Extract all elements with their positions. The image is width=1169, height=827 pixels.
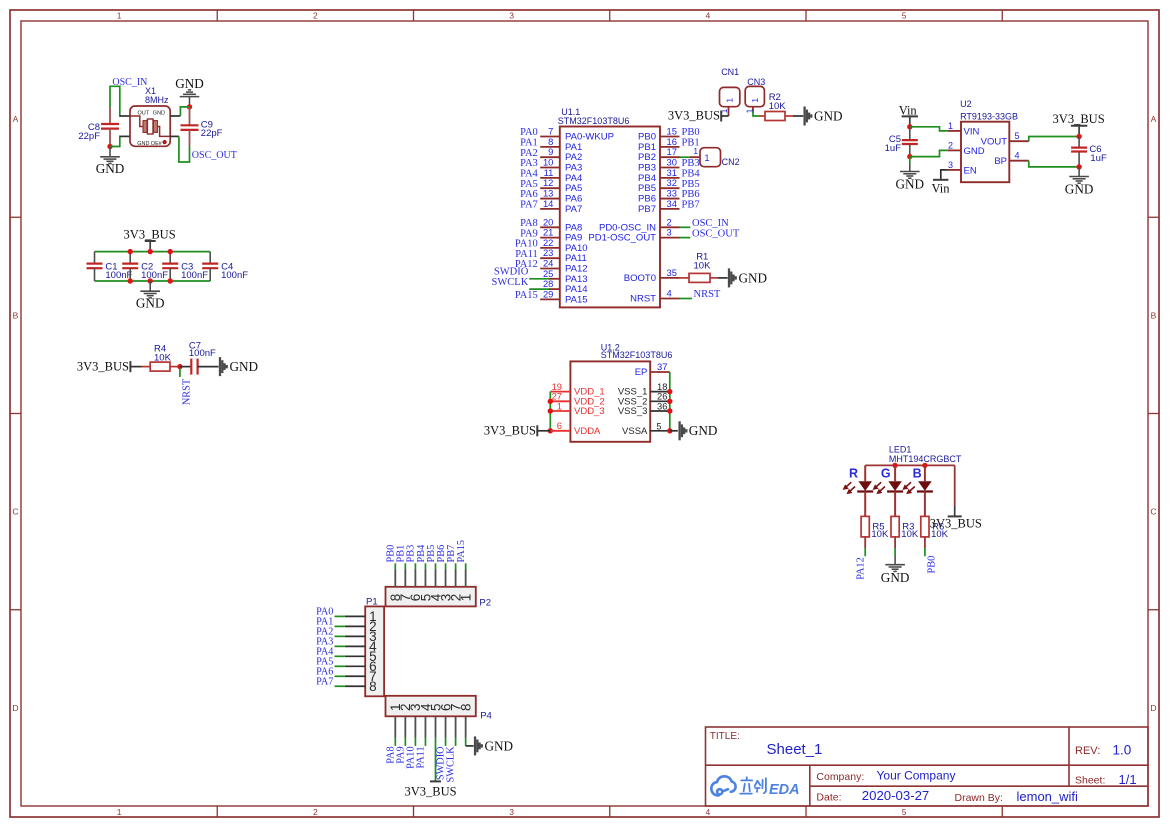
LCEDA logo cloud icon bbox=[711, 776, 735, 795]
resistor R5 bbox=[861, 516, 869, 537]
wire CN3 to R2 bbox=[753, 111, 760, 116]
wire P4 pin8 to GND bbox=[465, 738, 467, 746]
junction dot C8-GND bbox=[107, 144, 112, 149]
svg-text:1: 1 bbox=[557, 400, 562, 411]
svg-text:10K: 10K bbox=[694, 261, 712, 272]
wire to net label OSC_OUT bbox=[680, 237, 691, 239]
ground GND at R2 bbox=[805, 107, 812, 126]
svg-text:NRST: NRST bbox=[630, 294, 656, 305]
svg-text:PA6: PA6 bbox=[565, 194, 582, 205]
svg-text:100nF: 100nF bbox=[221, 270, 248, 281]
U1.2 pin 5 VSSA bbox=[650, 430, 670, 432]
LED R diode bbox=[864, 465, 866, 481]
U1.1 pin 9 (PA2) left bbox=[540, 156, 560, 158]
svg-text:P2: P2 bbox=[479, 597, 491, 608]
IC U1.1 body bbox=[560, 127, 660, 308]
U1.1 pin 34 (PB7) right bbox=[660, 208, 680, 210]
svg-text:PB6: PB6 bbox=[682, 189, 700, 200]
svg-text:OE#: OE# bbox=[151, 141, 163, 147]
svg-text:2020-03-27: 2020-03-27 bbox=[862, 788, 929, 803]
svg-text:PA2: PA2 bbox=[520, 148, 538, 159]
svg-text:3V3_BUS: 3V3_BUS bbox=[124, 228, 176, 242]
svg-text:35: 35 bbox=[667, 267, 677, 278]
U1.1 pin 31 (PB4) right bbox=[660, 177, 680, 179]
svg-text:PB6: PB6 bbox=[638, 194, 656, 205]
wire X1 GND bottom-left pin stub bbox=[120, 135, 130, 137]
capacitor C7 bbox=[190, 359, 192, 375]
svg-text:29: 29 bbox=[543, 288, 553, 299]
svg-text:Date:: Date: bbox=[816, 791, 841, 803]
svg-text:Vin: Vin bbox=[932, 181, 951, 195]
U1.2 pin 27 (VDD_2) left bbox=[550, 400, 570, 402]
wire LED anode rail bbox=[865, 464, 955, 466]
svg-text:GND: GND bbox=[175, 76, 204, 91]
svg-text:100nF: 100nF bbox=[141, 270, 168, 281]
svg-text:3: 3 bbox=[667, 227, 672, 238]
svg-text:PA15: PA15 bbox=[565, 294, 588, 305]
border column ticks top bbox=[217, 10, 1002, 21]
junction dot C6 top bbox=[1076, 134, 1081, 139]
wire X1 GND top-right pin stub bbox=[170, 115, 180, 117]
svg-text:8: 8 bbox=[369, 679, 377, 694]
U1.1 pin 24 (PA12) left bbox=[540, 268, 560, 270]
svg-text:BOOT0: BOOT0 bbox=[624, 273, 656, 284]
svg-text:OSC_OUT: OSC_OUT bbox=[692, 228, 740, 239]
svg-text:8MHz: 8MHz bbox=[145, 95, 169, 105]
U1.2 pin 1 (VDD_3) left bbox=[550, 410, 570, 412]
resistor R4 bbox=[142, 366, 151, 368]
ground GND below capacitor bank bbox=[140, 281, 160, 298]
ground GND at BOOT0 bbox=[729, 268, 736, 287]
capacitor C1 bbox=[94, 252, 96, 264]
junction dot VDD rail y=401.3 bbox=[548, 399, 553, 404]
svg-text:3: 3 bbox=[948, 160, 953, 170]
U1.1 pin 23 (PA11) left bbox=[540, 257, 560, 259]
wire 3V3 rail top bbox=[95, 251, 211, 253]
junction dot NRST bbox=[177, 364, 182, 369]
U1.1 pin 33 (PB6) right bbox=[660, 198, 680, 200]
svg-text:PA7: PA7 bbox=[520, 200, 538, 211]
svg-text:1: 1 bbox=[750, 98, 760, 103]
U1.1 pin 28 (PA14) left bbox=[529, 288, 549, 290]
U2 pin 4 BP bbox=[1009, 160, 1029, 162]
svg-text:D: D bbox=[12, 703, 18, 713]
junction dot cap bank bottom x=170.2 bbox=[168, 278, 173, 283]
LED R emission arrows bbox=[844, 482, 855, 493]
resistor R6 bbox=[921, 516, 929, 537]
svg-text:PA7: PA7 bbox=[565, 204, 582, 215]
LED G diode bbox=[894, 465, 896, 481]
connector CN2 body bbox=[700, 148, 721, 167]
svg-text:GND: GND bbox=[230, 359, 259, 374]
U1.1 pin 8 (PA1) left bbox=[540, 146, 560, 148]
junction dot rail B bbox=[922, 463, 927, 468]
svg-text:BP: BP bbox=[994, 156, 1007, 167]
wire 3V3_BUS to CN1 bbox=[721, 115, 728, 117]
wire below resistor R3 bbox=[894, 537, 896, 548]
junction dot VDD rail y=411 bbox=[548, 408, 553, 413]
svg-text:B: B bbox=[1151, 310, 1157, 320]
svg-text:33: 33 bbox=[667, 188, 677, 199]
U1.1 pin 15 (PB0) right bbox=[660, 136, 680, 138]
svg-text:GND: GND bbox=[137, 141, 149, 147]
svg-text:NRST: NRST bbox=[181, 378, 192, 405]
svg-text:10: 10 bbox=[543, 157, 553, 168]
net port Vin at EN bbox=[933, 179, 948, 181]
border column ticks bottom bbox=[217, 806, 1002, 817]
U2 pin 2 GND bbox=[948, 149, 961, 151]
U1.2 pin 36 (VSS_3) right bbox=[650, 410, 670, 412]
U2 pin 5 VOUT bbox=[1009, 140, 1029, 142]
wire X1 top-right to C9 bbox=[180, 107, 189, 116]
svg-text:PA6: PA6 bbox=[520, 189, 538, 200]
wire C8 to X1 GND pin bbox=[110, 136, 121, 146]
svg-text:34: 34 bbox=[667, 198, 677, 209]
svg-text:3: 3 bbox=[509, 10, 514, 20]
border row ticks left bbox=[10, 217, 21, 610]
svg-text:6: 6 bbox=[557, 420, 562, 431]
svg-text:GND: GND bbox=[896, 177, 925, 192]
wire VSSA to GND bbox=[670, 430, 678, 432]
svg-text:4: 4 bbox=[706, 10, 711, 20]
svg-text:1: 1 bbox=[458, 594, 473, 602]
svg-text:Your Company: Your Company bbox=[877, 768, 956, 782]
junction dot rail G bbox=[892, 463, 897, 468]
U1.2 pin 18 (VSS_1) right bbox=[650, 391, 670, 393]
wire Vin to U2 VIN bbox=[910, 127, 948, 131]
svg-text:PA1: PA1 bbox=[520, 138, 538, 149]
wire below resistor R5 bbox=[864, 537, 866, 548]
svg-text:GND: GND bbox=[96, 161, 125, 176]
LED R cathode lead bbox=[864, 492, 866, 517]
svg-text:GND: GND bbox=[739, 270, 768, 285]
svg-text:NRST: NRST bbox=[694, 289, 721, 300]
connector CN3 pin 1 bbox=[752, 107, 754, 112]
connector CN1 pin 1 bbox=[728, 107, 730, 116]
svg-text:VDD_3: VDD_3 bbox=[574, 406, 605, 417]
capacitor C2 bbox=[129, 252, 131, 264]
U1.1 pin 32 (PB5) right bbox=[660, 187, 680, 189]
svg-text:1: 1 bbox=[117, 10, 122, 20]
svg-text:100nF: 100nF bbox=[181, 270, 208, 281]
U2 pin 3 EN bbox=[948, 169, 961, 171]
wire OSC_IN hook bbox=[110, 86, 121, 116]
svg-text:RT9193-33GB: RT9193-33GB bbox=[960, 111, 1018, 121]
wire C5 to ground bbox=[909, 157, 911, 164]
resistor R3 bbox=[891, 516, 899, 537]
svg-text:3V3_BUS: 3V3_BUS bbox=[77, 360, 129, 374]
svg-text:5: 5 bbox=[1015, 131, 1020, 141]
wire C9 bottom to X1 OE# bbox=[179, 136, 190, 162]
U1.1 pin 13 (PA6) left bbox=[540, 198, 560, 200]
svg-text:C: C bbox=[12, 507, 18, 517]
connector CN2 pin 1 bbox=[690, 156, 700, 158]
svg-text:Company:: Company: bbox=[816, 771, 864, 783]
svg-text:5: 5 bbox=[902, 807, 907, 817]
svg-text:VIN: VIN bbox=[964, 126, 980, 137]
resistor R1 bbox=[680, 277, 690, 279]
svg-text:22pF: 22pF bbox=[201, 128, 223, 139]
U1.1 pin 7 (PA0-WKUP) left bbox=[540, 136, 560, 138]
svg-text:100nF: 100nF bbox=[189, 348, 216, 359]
wire to net label OSC_IN bbox=[680, 226, 691, 228]
crystal X1 body bbox=[130, 106, 170, 146]
IC U1.2 body bbox=[570, 361, 650, 441]
LED B emission arrows bbox=[904, 482, 915, 493]
svg-text:PB7: PB7 bbox=[638, 204, 656, 215]
svg-text:13: 13 bbox=[543, 188, 553, 199]
crystal X1 internal symbol bbox=[130, 116, 170, 136]
junction dot cap bank bottom x=130.2 bbox=[128, 278, 133, 283]
U1.1 pin 25 (PA13) left bbox=[529, 278, 549, 280]
svg-text:CN1: CN1 bbox=[721, 67, 739, 77]
wire LED rail to 3V3_BUS bbox=[954, 465, 956, 506]
svg-text:1: 1 bbox=[693, 146, 698, 156]
LCEDA logo text 立创EDA bbox=[740, 777, 766, 793]
ground GND at P4 pin8 bbox=[475, 736, 482, 755]
svg-text:B: B bbox=[913, 466, 922, 480]
border row letters right bbox=[1150, 114, 1156, 713]
U1.1 pin 3 (PD1-OSC_OUT) right bbox=[660, 237, 680, 239]
wire P4 pin5 to 3V3_BUS bbox=[435, 738, 437, 782]
svg-text:2: 2 bbox=[313, 807, 318, 817]
svg-text:GND: GND bbox=[153, 111, 165, 117]
ground GND below C6 bbox=[1069, 167, 1089, 183]
U1.1 pin 12 (PA5) left bbox=[540, 187, 560, 189]
capacitor C6 bbox=[1078, 137, 1080, 148]
wire R4 to C7 bbox=[180, 366, 191, 368]
U1.1 pin 4 (NRST) right bbox=[660, 298, 680, 300]
ground GND above C9 bbox=[180, 90, 200, 107]
U1.1 pin 35 (BOOT0) right bbox=[660, 277, 680, 279]
wire GND rail bottom bbox=[95, 280, 211, 282]
border column numbers bottom bbox=[117, 807, 907, 817]
svg-text:PA15: PA15 bbox=[515, 290, 538, 301]
border row letters left bbox=[12, 114, 18, 713]
svg-text:37: 37 bbox=[657, 361, 667, 372]
svg-text:1/1: 1/1 bbox=[1119, 772, 1137, 787]
svg-text:TITLE:: TITLE: bbox=[710, 731, 740, 742]
svg-text:22pF: 22pF bbox=[78, 131, 100, 142]
junction dot VDD rail y=430.8 bbox=[548, 428, 553, 433]
capacitor C5 bbox=[909, 127, 911, 140]
ground GND below C5 bbox=[900, 164, 920, 179]
svg-text:1: 1 bbox=[117, 807, 122, 817]
wire below resistor R6 bbox=[924, 537, 926, 548]
svg-text:C: C bbox=[1150, 507, 1156, 517]
svg-text:PB2: PB2 bbox=[638, 152, 656, 163]
svg-text:PA11: PA11 bbox=[416, 746, 427, 768]
junction dot VSS 3 bbox=[667, 408, 672, 413]
svg-text:lemon_wifi: lemon_wifi bbox=[1017, 789, 1079, 804]
svg-text:4: 4 bbox=[667, 288, 672, 299]
wire EP down to VSS rail bbox=[669, 372, 671, 431]
wire NRST right bbox=[680, 298, 693, 300]
U1.1 pin 21 (PA9) left bbox=[540, 237, 560, 239]
U1.1 pin 17 (PB2) right bbox=[660, 156, 680, 158]
wire C7 to GND bbox=[198, 366, 219, 368]
svg-text:U2: U2 bbox=[960, 99, 972, 109]
svg-text:1: 1 bbox=[725, 98, 735, 103]
ground GND at VSSA bbox=[680, 421, 687, 440]
svg-text:5: 5 bbox=[656, 421, 661, 431]
svg-text:GND: GND bbox=[814, 108, 843, 123]
svg-text:PA2: PA2 bbox=[565, 152, 582, 163]
svg-text:GND: GND bbox=[689, 423, 718, 438]
border row ticks right bbox=[1148, 217, 1159, 610]
capacitor C4 bbox=[209, 252, 211, 264]
svg-text:CN2: CN2 bbox=[722, 157, 740, 167]
U1.1 pin 20 (PA8) left bbox=[540, 226, 560, 228]
svg-text:PA7: PA7 bbox=[316, 676, 333, 687]
power port 3V3_BUS below P4 bbox=[430, 780, 441, 782]
junction dot cap bank bottom x=150.2 bbox=[148, 278, 153, 283]
capacitor C3 bbox=[169, 252, 171, 264]
svg-text:1uF: 1uF bbox=[1090, 153, 1107, 164]
wire PB2 to CN2 bbox=[680, 156, 691, 158]
wire X1 OUT pin stub bbox=[120, 115, 130, 117]
capacitor C8 bbox=[109, 107, 111, 124]
wire EN to Vin port bbox=[941, 170, 948, 179]
wire R2 to GND bbox=[793, 115, 803, 117]
LED B cathode lead bbox=[924, 492, 926, 517]
svg-text:VDDA: VDDA bbox=[574, 426, 601, 437]
U1.1 pin 16 (PB1) right bbox=[660, 146, 680, 148]
wire 3V3_BUS to VDDA bbox=[537, 430, 550, 432]
U1.1 pin 14 (PA7) left bbox=[540, 208, 560, 210]
title block frame bbox=[706, 727, 1149, 806]
svg-text:B: B bbox=[13, 310, 19, 320]
U1.2 pin 37 EP bbox=[650, 371, 670, 373]
connector P4 body bbox=[386, 696, 476, 717]
svg-text:STM32F103T8U6: STM32F103T8U6 bbox=[558, 116, 630, 126]
svg-text:1uF: 1uF bbox=[885, 143, 902, 154]
resistor R2 bbox=[760, 115, 766, 117]
junction dot C5 bottom bbox=[907, 154, 912, 159]
U1.1 pin 29 (PA15) left bbox=[540, 298, 560, 300]
svg-text:SWCLK: SWCLK bbox=[492, 277, 529, 288]
svg-text:PB3: PB3 bbox=[638, 163, 656, 174]
svg-text:REV:: REV: bbox=[1075, 745, 1100, 757]
U2 pin 1 VIN bbox=[948, 130, 961, 132]
svg-text:14: 14 bbox=[543, 198, 553, 209]
U1.2 pin 6 VDDA bbox=[550, 430, 570, 432]
ground GND right of C7 bbox=[220, 357, 227, 376]
U1.2 pin 19 (VDD_1) left bbox=[550, 391, 570, 393]
svg-text:GND: GND bbox=[136, 296, 165, 311]
svg-text:PA15: PA15 bbox=[456, 540, 467, 563]
capacitor C9 bbox=[189, 107, 191, 125]
U1.1 pin 10 (PA3) left bbox=[540, 167, 560, 169]
LED G emission arrows bbox=[874, 482, 885, 493]
svg-text:PD1-OSC_OUT: PD1-OSC_OUT bbox=[588, 233, 656, 244]
svg-text:VOUT: VOUT bbox=[981, 137, 1008, 148]
connector CN3 body bbox=[745, 86, 764, 106]
svg-text:EP: EP bbox=[635, 367, 648, 378]
svg-text:PA12: PA12 bbox=[856, 557, 867, 580]
svg-text:EDA: EDA bbox=[769, 782, 800, 798]
U1.1 pin 30 (PB3) right bbox=[660, 167, 680, 169]
svg-text:5: 5 bbox=[902, 10, 907, 20]
svg-text:SWCLK: SWCLK bbox=[446, 746, 457, 783]
svg-text:GND: GND bbox=[1065, 182, 1094, 197]
svg-text:PB7: PB7 bbox=[682, 200, 700, 211]
svg-text:10K: 10K bbox=[931, 529, 949, 540]
svg-text:VSSA: VSSA bbox=[622, 426, 648, 437]
connector CN1 body bbox=[720, 87, 740, 106]
wire NRST stub bbox=[179, 369, 181, 378]
svg-text:EN: EN bbox=[964, 165, 977, 176]
junction dot VSS 1 bbox=[667, 389, 672, 394]
svg-text:VSS_3: VSS_3 bbox=[618, 406, 648, 417]
svg-text:3: 3 bbox=[509, 807, 514, 817]
svg-text:Drawn By:: Drawn By: bbox=[955, 792, 1003, 804]
wire 3V3_BUS to R4 bbox=[130, 366, 141, 368]
junction dot C6 bottom bbox=[1076, 164, 1081, 169]
connector P1 body bbox=[365, 606, 384, 696]
svg-text:4: 4 bbox=[1015, 151, 1020, 161]
U1.1 pin 11 (PA4) left bbox=[540, 177, 560, 179]
junction dot VSS 2 bbox=[667, 399, 672, 404]
border column numbers top bbox=[117, 10, 907, 20]
svg-text:A: A bbox=[13, 114, 19, 124]
svg-text:PA3: PA3 bbox=[565, 163, 582, 174]
svg-text:Sheet_1: Sheet_1 bbox=[767, 741, 823, 758]
svg-text:PB0: PB0 bbox=[926, 556, 937, 574]
power port 3V3_BUS below LED rail bbox=[948, 515, 962, 517]
svg-text:OSC_OUT: OSC_OUT bbox=[192, 150, 237, 161]
svg-text:10K: 10K bbox=[901, 529, 919, 540]
svg-text:P1: P1 bbox=[366, 596, 378, 607]
svg-text:10K: 10K bbox=[769, 101, 787, 112]
svg-text:10K: 10K bbox=[871, 529, 889, 540]
U1.1 pin 22 (PA10) left bbox=[540, 247, 560, 249]
wire VDD rail bbox=[549, 392, 551, 431]
ground GND below LED G resistor bbox=[894, 555, 896, 557]
svg-text:1: 1 bbox=[948, 121, 953, 131]
svg-text:D: D bbox=[1150, 703, 1156, 713]
wire VOUT to 3V3_BUS bbox=[1029, 137, 1079, 142]
wire C5 bottom to U2 GND bbox=[910, 150, 948, 156]
svg-text:Sheet:: Sheet: bbox=[1075, 775, 1105, 787]
svg-text:P4: P4 bbox=[480, 710, 492, 721]
svg-text:3V3_BUS: 3V3_BUS bbox=[930, 516, 982, 530]
svg-text:10K: 10K bbox=[154, 352, 172, 363]
svg-text:MHT194CRGBCT: MHT194CRGBCT bbox=[889, 454, 962, 464]
ground GND below C8 bbox=[100, 147, 120, 164]
junction dot cap bank top x=170.2 bbox=[168, 249, 173, 254]
svg-text:STM32F103T8U6: STM32F103T8U6 bbox=[601, 350, 673, 360]
LED B diode bbox=[924, 465, 926, 481]
svg-text:8: 8 bbox=[458, 703, 473, 711]
LED G cathode lead bbox=[894, 492, 896, 517]
svg-text:GND: GND bbox=[881, 570, 910, 585]
U1.2 pin 26 (VSS_2) right bbox=[650, 400, 670, 402]
svg-text:30: 30 bbox=[667, 157, 677, 168]
svg-text:4: 4 bbox=[706, 807, 711, 817]
svg-text:A: A bbox=[1151, 114, 1157, 124]
connector P2 body bbox=[386, 587, 476, 607]
wire BP to C6 bottom bbox=[1029, 161, 1079, 167]
svg-text:3V3_BUS: 3V3_BUS bbox=[1053, 112, 1105, 126]
svg-text:3V3_BUS: 3V3_BUS bbox=[668, 109, 720, 123]
junction dot Vin-C5 bbox=[907, 124, 912, 129]
svg-text:GND: GND bbox=[484, 738, 513, 753]
svg-text:R: R bbox=[849, 466, 858, 480]
junction dot VSSA bbox=[667, 428, 672, 433]
IC U2 body bbox=[961, 122, 1009, 183]
svg-text:2: 2 bbox=[313, 10, 318, 20]
